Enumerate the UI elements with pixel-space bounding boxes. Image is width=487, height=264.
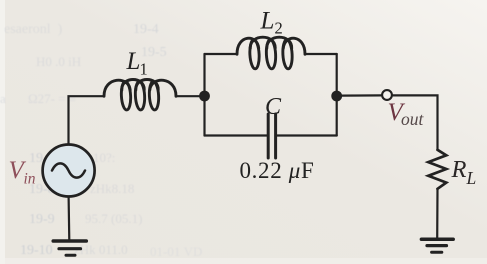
wire L1 to node A	[176, 95, 201, 97]
svg-text:19-9: 19-9	[29, 212, 55, 227]
svg-text:19-4: 19-4	[133, 22, 159, 37]
svg-text:L: L	[126, 48, 141, 75]
svg-text:2: 2	[275, 19, 283, 38]
ground left	[53, 241, 86, 255]
svg-text:01-01 VD: 01-01 VD	[150, 244, 202, 259]
svg-text:10?:: 10?:	[93, 150, 115, 165]
svg-text:R: R	[451, 156, 467, 183]
node B junction dot	[331, 91, 342, 102]
svg-text:95.7 (05.1): 95.7 (05.1)	[85, 211, 142, 226]
svg-text:zHk8.18: zHk8.18	[90, 181, 134, 196]
wire left branch vertical	[203, 54, 205, 136]
wire Vin to L1	[69, 96, 105, 144]
svg-text:H0 .0 iH: H0 .0 iH	[36, 54, 81, 69]
resistor RL	[428, 150, 446, 189]
svg-text:a: a	[0, 91, 6, 106]
svg-text:1: 1	[140, 60, 148, 79]
svg-text:esaeronl ): esaeronl )	[4, 22, 63, 37]
wire top rail right	[305, 53, 337, 55]
inductor L2	[237, 37, 305, 69]
voltage source Vin	[43, 145, 95, 197]
wire Vin to ground left	[67, 197, 70, 242]
wire bottom rail left	[205, 134, 268, 136]
wire node B to Vout node	[342, 94, 382, 96]
svg-text:L: L	[260, 8, 275, 35]
node A junction dot	[199, 91, 210, 102]
wire bottom rail right	[277, 134, 337, 136]
svg-text:L: L	[466, 168, 477, 188]
svg-text:0.22 μF: 0.22 μF	[240, 158, 315, 183]
wire top rail left	[205, 53, 238, 55]
svg-text:in: in	[24, 171, 36, 188]
svg-text:19-5: 19-5	[141, 45, 167, 60]
capacitor C	[268, 114, 275, 158]
svg-text:out: out	[401, 109, 425, 129]
wire Vout to RL	[392, 95, 437, 149]
svg-text:zHk 011.0: zHk 011.0	[74, 242, 128, 257]
node Vout open circle	[382, 90, 392, 100]
wire RL to ground right	[436, 189, 438, 239]
svg-text:19-10: 19-10	[20, 243, 53, 258]
inductor L1	[104, 80, 176, 111]
svg-text:C: C	[265, 94, 282, 120]
wire right branch vertical	[336, 54, 338, 136]
ground right	[421, 239, 453, 252]
